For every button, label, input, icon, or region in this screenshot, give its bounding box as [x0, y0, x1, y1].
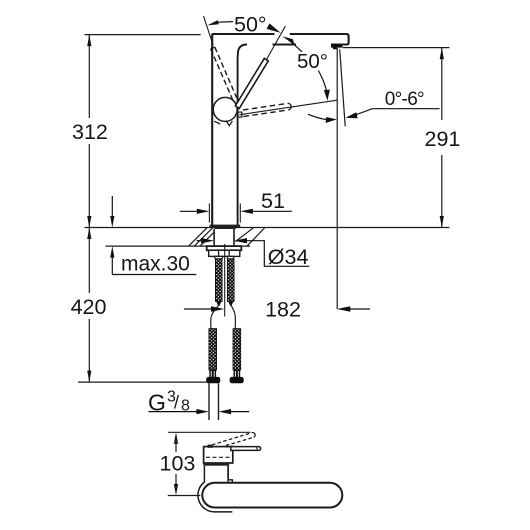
50deg-1 left arrow [207, 20, 219, 25]
dashed lever tip cap [211, 47, 215, 49]
dim 51 arrows [180, 210, 199, 212]
svg-text:Ø34: Ø34 [268, 245, 309, 269]
closed lever butt square [238, 112, 242, 117]
hose end nuts [206, 377, 220, 383]
G3/8 dim line with arrows [149, 411, 199, 413]
plan: column right side [227, 466, 229, 480]
plan: rod end ellipse line [256, 447, 258, 451]
G3/8 tube [208, 383, 210, 420]
o34 leader [246, 241, 309, 267]
base flange [210, 225, 241, 228]
tick line of dashed lever axis [204, 16, 214, 45]
bottom reference line at hose ends [78, 381, 207, 383]
0-6 underline shelf [372, 108, 439, 110]
dim 51 extension lines [208, 204, 210, 223]
max30 upper arrow [111, 196, 113, 217]
svg-text:51: 51 [261, 189, 285, 213]
hose s-curves [211, 306, 219, 329]
aerator [331, 45, 343, 50]
shank through deck [213, 229, 215, 246]
svg-text:max.30: max.30 [121, 253, 190, 276]
lever axis extension line [266, 26, 285, 59]
hose collars [209, 370, 240, 377]
pivot circle [213, 97, 237, 121]
vertical 0deg line from aerator [336, 48, 338, 309]
dim 420 [88, 228, 90, 294]
50deg-2 leader to closed lever [318, 71, 327, 92]
plan: notch on capsule [228, 480, 232, 483]
50deg-1 right arrow (on lever axis) [267, 23, 281, 33]
svg-text:103: 103 [160, 452, 196, 476]
0-6 leader arrow [354, 109, 372, 116]
center axis line [224, 244, 226, 317]
svg-text:291: 291 [425, 127, 461, 151]
mounting surface line [85, 227, 450, 229]
closed lever dashed pointing right [243, 103, 288, 116]
extension line top left (312 reference) [85, 34, 201, 36]
50deg-2 arrow up-left on lever axis [282, 36, 294, 45]
hatching left [189, 228, 215, 247]
dashed marks below circle [214, 121, 232, 126]
plan: body block [204, 447, 233, 463]
closed lever tip cap [288, 103, 292, 110]
tilted 6deg line [340, 49, 346, 126]
plan view bottom extension line [168, 495, 201, 497]
plan: dashed raised lever [212, 433, 254, 449]
dim 312 [88, 35, 90, 118]
spout and column outline [212, 34, 348, 226]
plan: base plate [203, 463, 229, 466]
svg-text:312: 312 [72, 120, 108, 144]
dim 291 [441, 48, 443, 120]
hose upper left braid [215, 259, 222, 302]
washer below deck [207, 246, 242, 250]
hose tips [216, 302, 221, 306]
svg-text:0°-6°: 0°-6° [385, 89, 424, 110]
dim 103 [174, 432, 178, 444]
svg-text:/: / [174, 393, 179, 413]
mounting nut [209, 250, 240, 256]
plan view top extension line [168, 431, 250, 433]
extension line right top [343, 47, 450, 49]
closed lever axis line [239, 100, 337, 115]
plan: column left side merging into outer arc [198, 466, 232, 512]
plan: hinge bump [208, 445, 213, 448]
plan: hidden cartridge dashed line [206, 456, 232, 458]
hose collar stripes [211, 371, 238, 377]
deck bottom line [106, 245, 251, 247]
hose lower right braid [233, 329, 241, 370]
svg-text:420: 420 [71, 295, 107, 319]
svg-text:50°: 50° [234, 12, 267, 36]
svg-text:50°: 50° [297, 50, 328, 73]
max30 lower arrow and shelf [110, 246, 114, 258]
swing arc with arrow [308, 114, 332, 119]
plan: solid rod lever [231, 447, 261, 451]
hatching right [236, 228, 265, 246]
solid lever open position [235, 58, 268, 108]
svg-text:182: 182 [265, 298, 301, 322]
hose upper right braid [227, 259, 234, 302]
plan: spout capsule [202, 483, 342, 508]
dim o34 arrows [197, 240, 204, 242]
cone transition [214, 256, 223, 259]
dashed lever rotated up-left [211, 47, 237, 100]
dim 182 [184, 308, 214, 310]
hose lower left braid [209, 329, 217, 370]
